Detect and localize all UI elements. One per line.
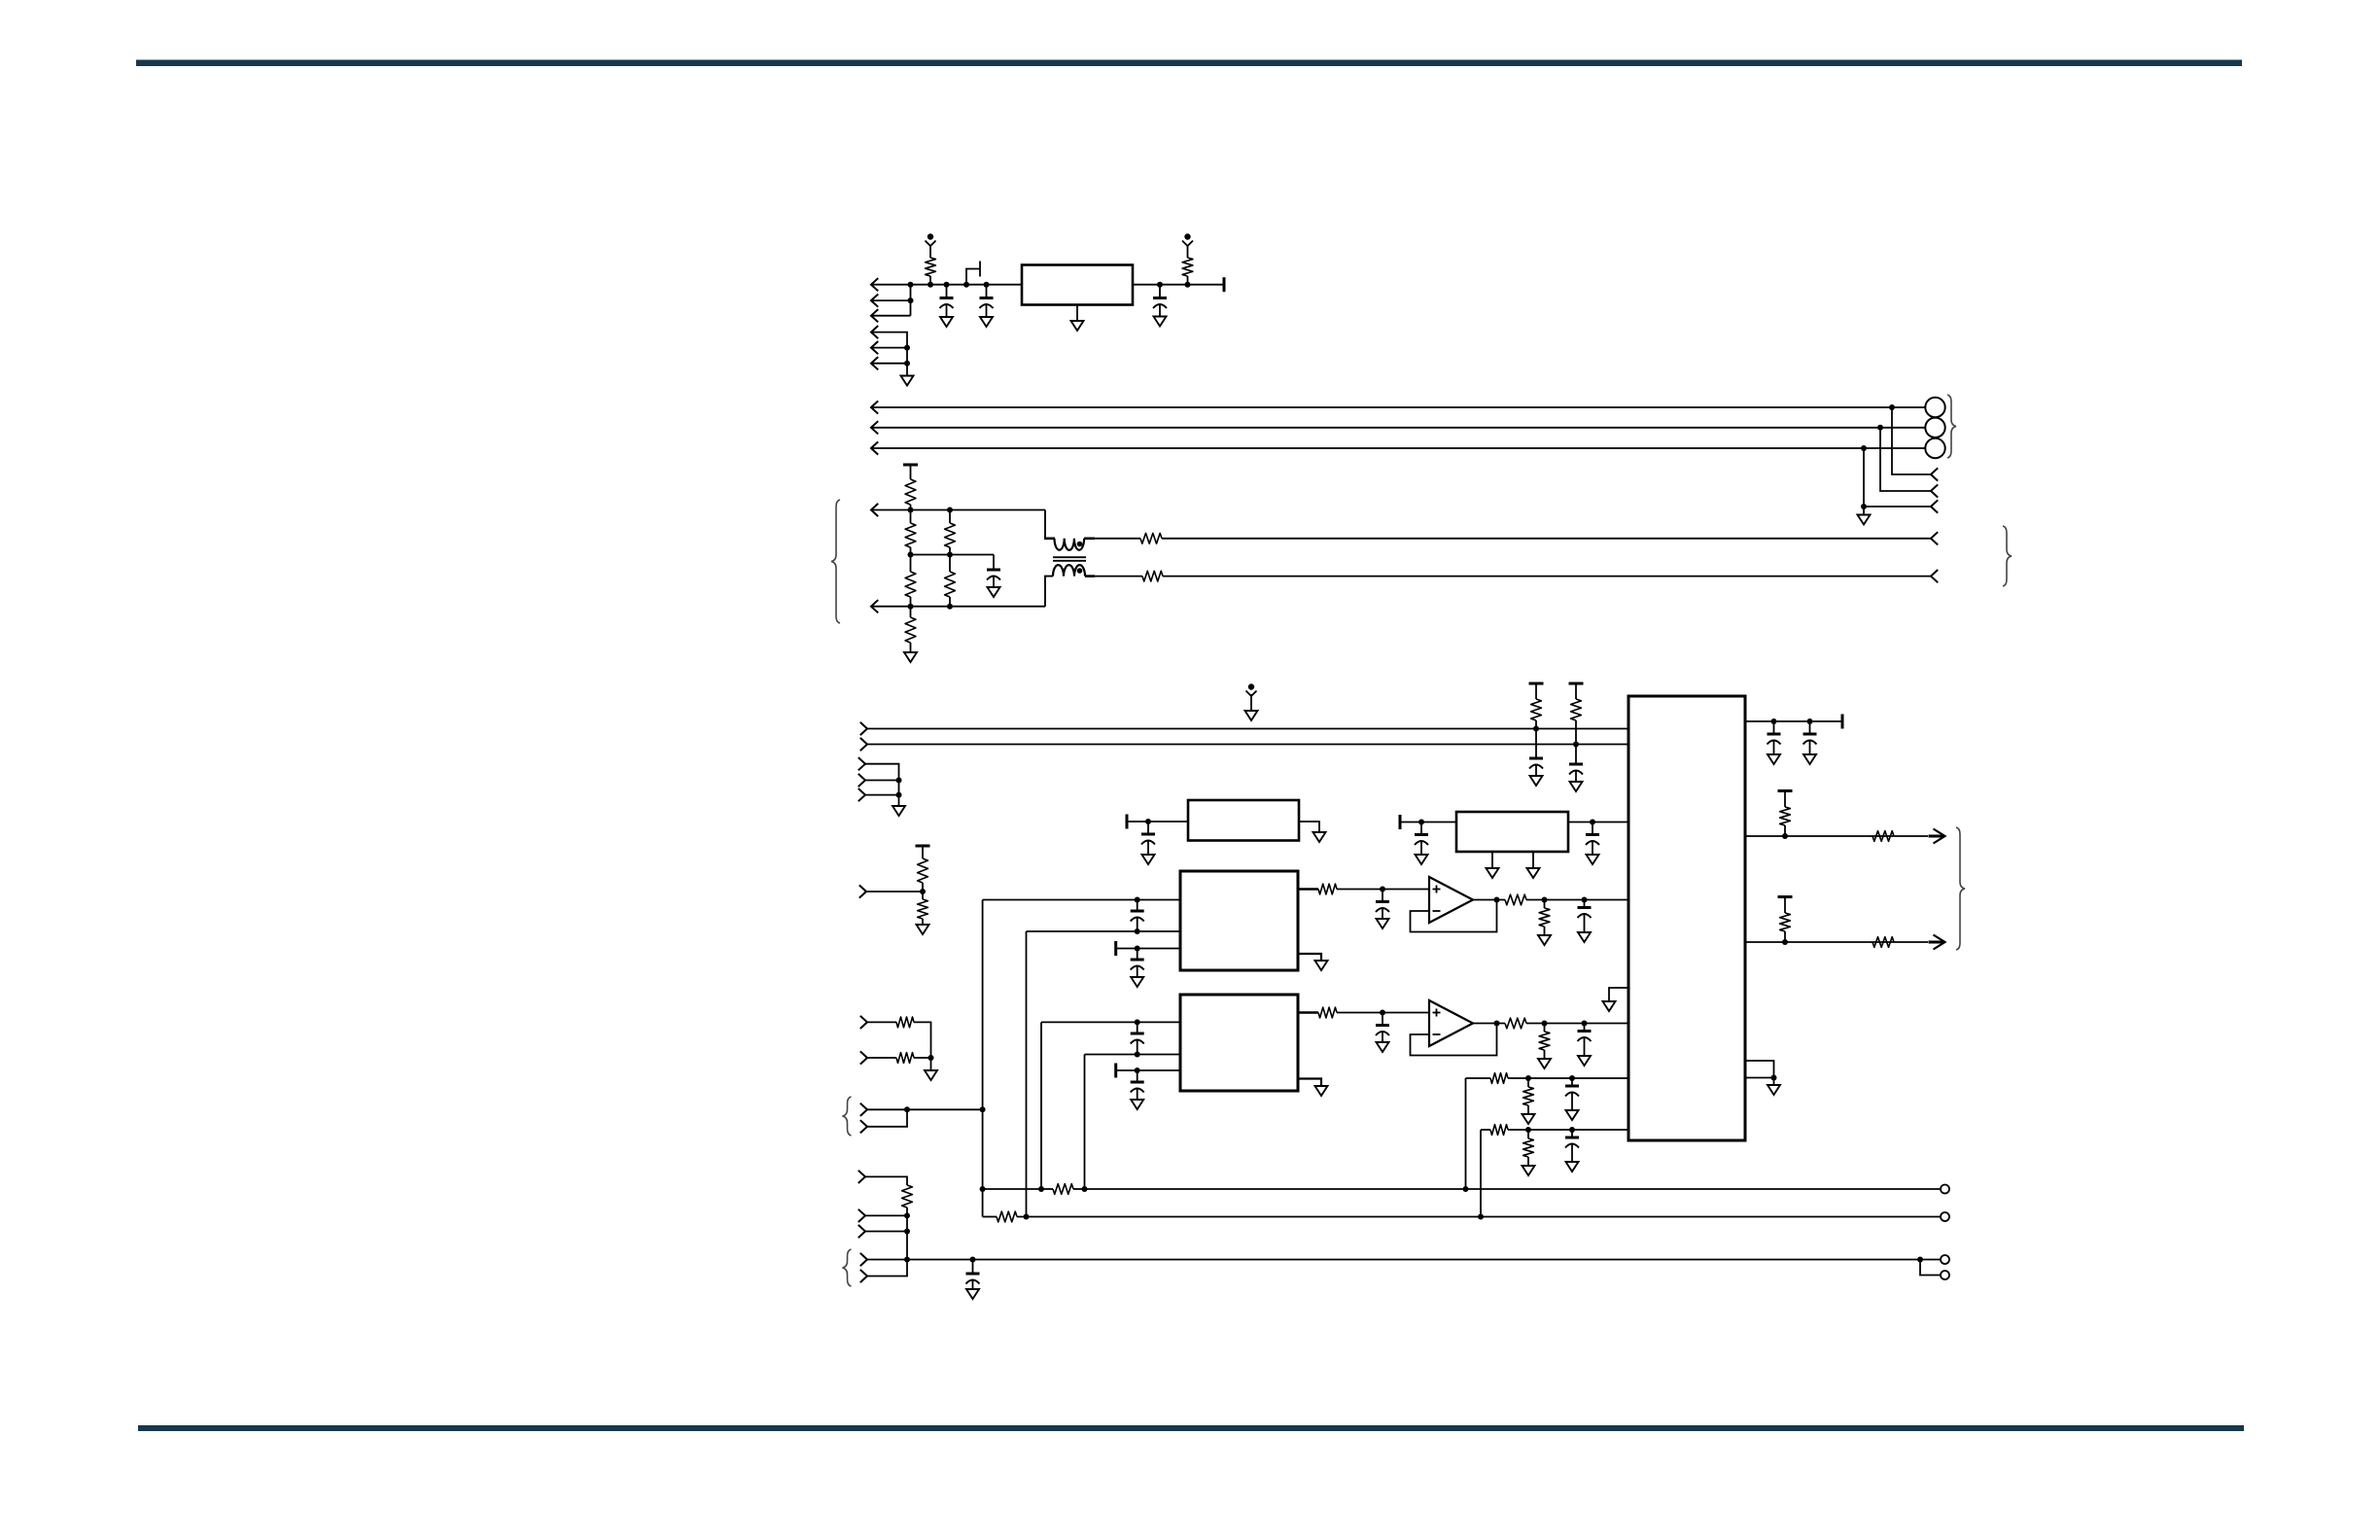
wire vertical V5 [1465, 1078, 1467, 1189]
wire J7-1 [865, 764, 899, 795]
junction [980, 1106, 986, 1112]
wire U2 out b [1337, 889, 1429, 891]
wire data line 2 [867, 744, 1628, 746]
wire DAC2 in1 [1041, 1021, 1180, 1023]
ground [1587, 855, 1599, 864]
connector pin J2-1 [871, 401, 878, 413]
terminal stub [1529, 682, 1544, 685]
wire FB2 left [983, 1215, 997, 1218]
resistor R30 [1780, 791, 1791, 837]
connector pin J1-3 [871, 309, 878, 322]
wire C18 gnd stem [1584, 1038, 1586, 1056]
wire U6 left gnd pin [1609, 988, 1628, 1001]
wire C5 gnd stem [1535, 766, 1537, 777]
resistor R33 [1872, 937, 1894, 948]
junction [1573, 742, 1579, 748]
ground [1142, 855, 1155, 864]
terminal stub [1841, 715, 1844, 729]
wire power rail [871, 284, 1022, 286]
capacitor C16 [1131, 1070, 1144, 1093]
junction [1380, 887, 1385, 892]
wire DAC2 in3 [1116, 1069, 1180, 1071]
wire C1 gnd stem [946, 305, 948, 317]
wire bus line 1 [871, 406, 1926, 408]
wire xfmr bottom rail [871, 606, 1045, 608]
brace xfmr output pair [2003, 526, 2012, 586]
junction [1145, 819, 1151, 824]
junction [1380, 1010, 1385, 1016]
wire vertical V1 [982, 900, 984, 1217]
wire X2 out [1568, 822, 1628, 823]
ground [1570, 782, 1583, 791]
connector pin J4-2 [871, 600, 878, 612]
wire xfmr out bottom [1095, 576, 1142, 577]
wire C8 gnd stem [1147, 842, 1149, 856]
junction [1135, 1052, 1140, 1058]
junction [1582, 1021, 1588, 1027]
capacitor C12 [1131, 949, 1144, 970]
wire stub 3 [1864, 448, 1931, 507]
wire U6 vdd [1745, 720, 1842, 722]
junction [908, 552, 914, 558]
wire U3 out [1473, 899, 1505, 901]
wire U2 gnd pin [1298, 954, 1321, 961]
wire J1-6 [871, 363, 907, 365]
junction [904, 361, 910, 367]
wire common line [907, 1259, 1920, 1261]
connector pin J12-2 [860, 1270, 867, 1282]
ground [1767, 1085, 1780, 1095]
ground [1578, 1056, 1591, 1066]
junction node E [984, 282, 990, 288]
wire J9-1b [914, 1022, 931, 1058]
junction [1569, 1127, 1575, 1133]
ground [966, 1289, 979, 1299]
resistor R5 [905, 555, 916, 607]
terminal stub [1126, 815, 1129, 829]
wire FB1 right [1085, 1188, 1942, 1190]
op-amp U3 [1429, 877, 1473, 923]
wire R3 stem [910, 465, 912, 479]
wire C22 gnd stem [1809, 742, 1811, 755]
terminal stub [1778, 895, 1793, 898]
resistor R28 [1490, 1125, 1508, 1136]
junction [1082, 1186, 1088, 1192]
capacitor C4 [987, 555, 1000, 580]
ground [1131, 1100, 1143, 1109]
connector pin J11-2 [858, 1209, 865, 1222]
junction [904, 1212, 910, 1218]
capacitor C14 [1578, 900, 1592, 919]
resistor R17 [902, 1185, 913, 1215]
wire C7 gnd stem [972, 1281, 974, 1290]
capacitor C19 [1565, 1078, 1579, 1097]
terminal stub [1399, 815, 1402, 829]
junction [1135, 946, 1140, 952]
junction [1525, 1075, 1531, 1081]
test point TP3 gnd [1245, 683, 1258, 720]
connector pin J3-3 [1931, 500, 1938, 512]
ground [1071, 321, 1084, 331]
junction [1582, 897, 1588, 903]
resistor R15 [896, 1017, 914, 1028]
resistor R14 [918, 892, 928, 925]
wire DAC1 in1 [983, 899, 1180, 901]
wire U6 out1 [1745, 835, 1928, 837]
junction [1463, 1186, 1469, 1192]
ground [1522, 1166, 1535, 1175]
wire C9 gnd stem [1420, 842, 1422, 855]
junction node F [1157, 282, 1163, 288]
connector pin J8 [859, 885, 866, 897]
brace input group [831, 500, 840, 623]
terminal P4 [1941, 1255, 1949, 1264]
junction [1917, 1257, 1923, 1263]
ground [1131, 977, 1143, 987]
wire vertical H [906, 1215, 908, 1259]
wire vertical V4 [1084, 1055, 1086, 1190]
capacitor C1 [940, 285, 954, 308]
junction [896, 792, 902, 798]
ground [1566, 1110, 1579, 1120]
junction [1494, 897, 1500, 903]
wire U4 out [1298, 1011, 1318, 1013]
jumper JP1 [966, 262, 980, 285]
ground [925, 1070, 937, 1080]
wire J11-1 [865, 1176, 907, 1185]
ground [1377, 1042, 1389, 1052]
connector pin J10-2 [860, 1120, 867, 1133]
capacitor C11 [1131, 900, 1144, 932]
resistor R32 [1780, 897, 1791, 943]
ground [1858, 515, 1871, 525]
wire U4 out b [1337, 1012, 1429, 1014]
junction node G [1185, 282, 1191, 288]
resistor R11 [1531, 683, 1542, 729]
wire C21 gnd stem [1773, 742, 1775, 755]
junction [1807, 718, 1813, 724]
junction [1478, 1214, 1484, 1220]
wire to P4 [1920, 1259, 1941, 1261]
connector pin J1-6 [871, 357, 878, 369]
resistor R13 [918, 846, 928, 892]
wire DAC1 in3 [1116, 948, 1180, 950]
output arrow OUT2 [1929, 935, 1945, 950]
resistor R2 [1182, 258, 1193, 285]
wire J1-2 [871, 299, 911, 301]
wire C14 gnd stem [1584, 915, 1586, 932]
connector pin J1-2 [871, 295, 878, 307]
capacitor C17 [1376, 1013, 1389, 1036]
resistor R16 [896, 1053, 914, 1064]
ground [1315, 961, 1328, 970]
wire C6 gnd stem [1575, 772, 1577, 783]
junction [970, 1257, 976, 1263]
connector pin J5-2 [1931, 570, 1938, 582]
wire row2 [1481, 1129, 1490, 1131]
wire C20 gnd stem [1571, 1145, 1573, 1163]
connector pin J11-3 [858, 1225, 865, 1238]
junction [1877, 425, 1883, 431]
junction [1542, 1021, 1548, 1027]
wire xfmr line top [1162, 538, 1931, 540]
wire vertical V6 [1480, 1130, 1482, 1217]
wire gnd stem [1863, 507, 1865, 515]
junction [1418, 820, 1424, 825]
DAC U4 [1180, 995, 1298, 1091]
capacitor C13 [1376, 890, 1389, 913]
wire X2 gnd stem 2 [1532, 852, 1534, 868]
capacitor C3 [1153, 285, 1167, 308]
transformer T1 [1044, 510, 1095, 607]
wire TP2 stem [1187, 246, 1189, 259]
wire J1-4 [871, 332, 907, 375]
coax terminal P3 [1925, 438, 1944, 458]
capacitor C8 [1141, 822, 1155, 845]
wire C19 gnd stem [1571, 1094, 1573, 1111]
resistor R8 [945, 555, 956, 607]
connector pin J7-1 [858, 757, 865, 770]
junction [1533, 726, 1539, 732]
wire OSC in [1400, 822, 1456, 823]
wire J7-2 [865, 780, 899, 782]
resistor R12 [1571, 683, 1582, 745]
wire U1 gnd pin [1076, 305, 1078, 322]
wire U3 feedback [1411, 900, 1497, 932]
junction node C [944, 282, 950, 288]
junction [1861, 445, 1867, 451]
wire gnd stem [1773, 1078, 1775, 1086]
wire xfmr out top [1095, 538, 1140, 540]
capacitor C22 [1803, 721, 1817, 745]
capacitor C20 [1565, 1130, 1579, 1148]
terminal P6 [1941, 1185, 1949, 1194]
wire DAC1 in2 [1027, 930, 1181, 932]
resistor R31 [1872, 831, 1894, 842]
junction [1771, 718, 1777, 724]
wire FB1 left [983, 1188, 1041, 1190]
ground [1487, 868, 1499, 878]
resistor R26 [1490, 1073, 1508, 1084]
junction [1889, 404, 1895, 410]
top page rule bar [136, 60, 2242, 67]
wire mid rail [911, 554, 995, 556]
capacitor C9 [1415, 822, 1428, 846]
junction [1494, 1021, 1500, 1027]
connector pin J2-3 [871, 441, 878, 454]
wire J1-5 [871, 347, 907, 349]
junction node VC [920, 889, 926, 894]
wire J11-3 [865, 1231, 907, 1233]
test point TP1 [926, 233, 936, 246]
connector pin J9-1 [860, 1016, 867, 1029]
resistor R1 [926, 258, 936, 285]
resistor R24 [1505, 1018, 1526, 1029]
junction [1024, 1214, 1030, 1220]
connector pin J6-1 [860, 722, 867, 735]
terminal stub [916, 845, 930, 848]
ground [1315, 1086, 1328, 1096]
resistor R21 [1505, 894, 1526, 905]
wire C13 gnd stem [1382, 909, 1383, 919]
brace pair F [843, 1249, 852, 1286]
wire U1 output rail [1133, 284, 1224, 286]
resistor R27 [1523, 1078, 1534, 1114]
connector pin J6-2 [860, 738, 867, 751]
terminal P5 [1941, 1271, 1949, 1279]
junction [1525, 1127, 1531, 1133]
resistor R25 [1539, 1024, 1550, 1060]
junction [1771, 1075, 1777, 1081]
ground [1154, 317, 1167, 327]
terminal stub [1114, 1064, 1117, 1078]
wire J10-2 [867, 1109, 907, 1127]
connector pin J1-1 [871, 278, 878, 291]
capacitor C18 [1578, 1024, 1592, 1042]
wire J12-2 [867, 1260, 907, 1277]
wire vertical V2 [1026, 931, 1028, 1216]
capacitor C7 [966, 1260, 980, 1284]
ground [940, 317, 953, 327]
resistor R9 [1140, 533, 1162, 543]
wire C2 gnd stem [986, 305, 988, 317]
op-amp U5 [1429, 1000, 1473, 1046]
wire U4 gnd pin [1298, 1079, 1321, 1087]
ground [892, 806, 905, 816]
connector pin J10-1 [860, 1103, 867, 1116]
ground [1377, 919, 1389, 928]
junction [908, 297, 914, 303]
ground [980, 317, 993, 327]
ground [917, 925, 929, 934]
wire C12 gnd stem [1137, 967, 1138, 978]
junction [904, 1257, 910, 1263]
capacitor C6 [1569, 745, 1583, 775]
ground [901, 376, 914, 386]
wire row2 b [1508, 1129, 1628, 1131]
wire DAC2 in2 [1085, 1054, 1181, 1056]
connector pin J4-1 [871, 504, 878, 516]
DAC U2 [1180, 871, 1298, 970]
junction [1135, 928, 1140, 934]
wire to P5 [1920, 1260, 1941, 1276]
output arrow OUT1 [1929, 829, 1945, 844]
wire U6 gnd pins [1745, 1061, 1774, 1078]
connector pin J1-4 [871, 326, 878, 338]
coax terminal P1 [1925, 398, 1944, 417]
oscillator X2 [1456, 812, 1568, 852]
ground [904, 652, 917, 662]
brace output pair [1956, 827, 1965, 950]
ground [1767, 754, 1780, 764]
connector pin J2-2 [871, 421, 878, 434]
junction node B [927, 282, 933, 288]
junction [947, 507, 953, 513]
junction [928, 1055, 934, 1061]
wire J1-3 [871, 315, 911, 317]
brace pair E [843, 1097, 852, 1136]
connector pin J1-5 [871, 341, 878, 354]
wire XO in [1127, 821, 1188, 822]
resistor R20 [1318, 884, 1337, 894]
terminal stub [1223, 277, 1226, 292]
wire opamp2 to IC [1526, 1023, 1628, 1025]
ground [1530, 776, 1543, 786]
wire J9-1a [867, 1021, 896, 1023]
junction [1782, 939, 1788, 945]
wire data line 1 [867, 728, 1628, 730]
resistor R29 [1523, 1130, 1534, 1166]
wire J11-2 [865, 1214, 907, 1216]
junction [904, 1106, 910, 1112]
junction [1782, 833, 1788, 839]
wire FB1 seg [1041, 1188, 1085, 1190]
junction [1569, 1075, 1575, 1081]
wire J7-3 [865, 794, 899, 796]
wire stub 2 [1880, 428, 1931, 491]
resistor R7 [945, 510, 956, 555]
connector pin J9-2 [860, 1051, 867, 1064]
junction [1590, 820, 1595, 825]
wire C10 gnd stem [1592, 842, 1593, 855]
resistor R18 [1053, 1184, 1073, 1195]
ground [1538, 1059, 1551, 1068]
wire U5 feedback [1411, 1024, 1497, 1056]
ground [1603, 1001, 1616, 1011]
wire gnd stem [930, 1058, 932, 1070]
resistor R6 [905, 607, 916, 652]
wire FB2 seg [1017, 1216, 1941, 1218]
wire bus line 2 [871, 427, 1926, 429]
wire C3 gnd stem [1159, 305, 1161, 317]
junction [1135, 1019, 1140, 1025]
wire row1 b [1508, 1077, 1628, 1079]
junction [1038, 1186, 1044, 1192]
junction [904, 345, 910, 351]
junction [908, 604, 914, 610]
connector pin J11-1 [858, 1171, 865, 1183]
ground [1803, 754, 1816, 764]
ground [1416, 855, 1428, 864]
terminal stub [1778, 789, 1793, 792]
wire U6 out2 [1745, 941, 1928, 943]
capacitor C15 [1131, 1022, 1144, 1054]
bottom page rule bar [138, 1425, 2244, 1431]
capacitor C10 [1586, 822, 1599, 846]
junction [1542, 897, 1548, 903]
wire J8 [866, 891, 923, 892]
oscillator X1 [1188, 800, 1299, 841]
resistor R10 [1142, 571, 1163, 581]
wire C17 gnd stem [1382, 1032, 1383, 1042]
connector pin J7-3 [858, 788, 865, 801]
capacitor C21 [1767, 721, 1781, 745]
ground [1566, 1162, 1579, 1172]
ground [1538, 935, 1551, 945]
coax terminal P2 [1925, 418, 1944, 437]
junction [980, 1186, 986, 1192]
ground [1578, 932, 1591, 942]
terminal stub [1569, 682, 1584, 685]
ground [1313, 832, 1326, 842]
brace output group [1947, 395, 1956, 458]
junction [904, 1229, 910, 1235]
junction [1861, 504, 1867, 509]
wire gnd stem [898, 795, 900, 806]
resistor R3 [905, 479, 916, 510]
ground [988, 587, 1000, 597]
wire vertical V3 [1040, 1022, 1042, 1189]
